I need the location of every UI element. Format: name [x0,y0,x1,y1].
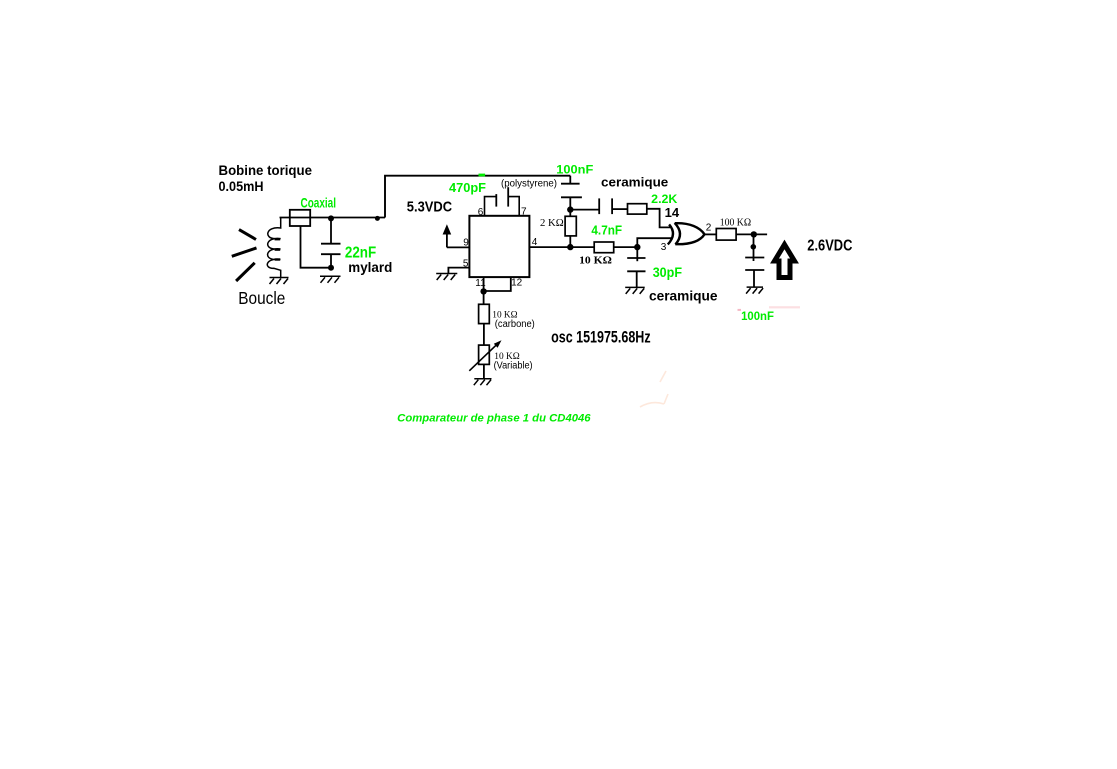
wire pin 4 [529,246,594,248]
wire 2.2K to gate pin14 [647,209,670,228]
svg-text:5: 5 [463,258,469,269]
svg-text:10 KΩ: 10 KΩ [579,256,612,267]
svg-text:100 KΩ: 100 KΩ [720,217,751,228]
svg-text:6: 6 [478,207,484,218]
variable arrow [469,344,497,371]
node junction right [375,216,380,221]
svg-text:(Variable): (Variable) [494,360,533,371]
wire to R carbone [483,291,485,304]
power arrow 5.3VDC [443,224,452,234]
capacitor ceramique series [570,198,627,214]
wire gate output [704,233,716,235]
wire 10K to node [614,246,638,248]
svg-text:(polystyrene): (polystyrene) [501,177,557,189]
coaxial box [290,210,310,226]
svg-text:2.6VDC: 2.6VDC [807,237,852,254]
wire main horizontal through coax [280,217,386,219]
pin 7 stub [509,197,520,216]
wire up and top run [385,176,570,218]
svg-text:2 KΩ: 2 KΩ [540,218,564,229]
inductor L (Boucle coil) [267,218,280,278]
svg-text:2.2K: 2.2K [651,192,678,206]
svg-text:7: 7 [521,207,527,218]
svg-text:9: 9 [463,238,469,249]
node pin11 junction [480,288,486,294]
resistor 10K series [594,242,614,253]
ground under 22nF [320,276,341,283]
wire pins 11-12 [484,277,511,291]
node pin4 / 2K [567,244,573,250]
svg-text:2: 2 [706,223,712,234]
svg-text:30pF: 30pF [653,265,682,280]
pink speck [738,309,742,311]
svg-text:100nF: 100nF [741,309,774,323]
green dash on wire [479,174,486,177]
wire to ground [483,364,485,378]
svg-text:22nF: 22nF [345,244,376,261]
node 22nF bottom [328,265,334,271]
svg-text:Coaxial: Coaxial [301,196,337,211]
radiation stroke 1 [239,230,256,240]
node out junction [751,231,757,237]
resistor 100K [716,229,736,241]
ground 30pF [625,287,645,294]
ground under coil [270,278,289,285]
svg-text:11: 11 [475,278,486,289]
svg-text:Bobine torique: Bobine torique [219,162,313,178]
resistor 10K variable [479,345,490,364]
wire coax shield down [301,226,332,268]
capacitor 30pF [627,247,645,287]
radiation stroke 3 [236,263,255,281]
radiation stroke 2 [232,248,257,256]
node small [751,244,757,250]
svg-text:Comparateur de phase 1 du CD40: Comparateur de phase 1 du CD4046 [397,413,591,425]
ground 100nF output [746,287,763,294]
wire pin 9 [447,246,470,248]
xor gate U1 [668,223,705,245]
node 2K top [567,206,573,212]
svg-text:4.7nF: 4.7nF [591,222,622,237]
svg-text:Boucle: Boucle [238,288,285,308]
ground bottom [474,379,492,386]
wire between resistors [483,324,485,346]
wire to gate pin3 [637,238,671,247]
capacitor 470pF plates [495,194,497,207]
ground pin 5 [436,274,457,281]
svg-text:mylard: mylard [348,260,392,275]
svg-text:0.05mH: 0.05mH [219,178,264,194]
resistor 2K [569,210,571,217]
svg-text:ceramique: ceramique [649,288,718,304]
capacitor 100nF output [745,234,764,287]
capacitor 22nF [321,218,341,267]
svg-text:osc 151975.68Hz: osc 151975.68Hz [551,328,651,346]
block arrow 2.6VDC [775,245,795,278]
svg-text:470pF: 470pF [449,181,486,195]
resistor 2.2K [628,204,647,214]
capacitor 100nF polystyrene top [561,176,582,210]
svg-text:100nF: 100nF [556,163,593,177]
faint smudge marks [640,371,668,407]
pin 6 stub [485,197,497,216]
svg-text:12: 12 [511,277,523,288]
svg-text:ceramique: ceramique [601,175,668,190]
pink smudge [769,306,800,308]
resistor 10K carbone [479,304,490,323]
svg-text:14: 14 [665,205,680,220]
svg-text:3: 3 [661,242,667,253]
svg-text:(carbone): (carbone) [495,319,535,330]
wire 100K right [736,233,767,235]
svg-text:5.3VDC: 5.3VDC [407,198,452,215]
wire pin 5 [448,268,469,274]
op IC CD4046 box [469,216,529,277]
node junction 22nF top [328,215,334,221]
node 30pF [634,244,640,250]
